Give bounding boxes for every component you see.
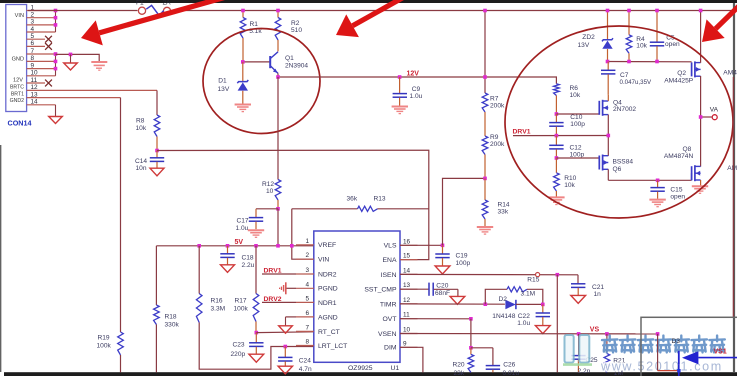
- junction VA: [699, 115, 703, 119]
- power ground R10: [548, 196, 564, 198]
- ground triangle near connector: [70, 54, 72, 63]
- svg-text:OVT: OVT: [383, 316, 397, 323]
- svg-text:C21: C21: [592, 284, 604, 291]
- svg-text:2A: 2A: [163, 0, 172, 6]
- svg-text:3.3M: 3.3M: [211, 306, 226, 313]
- capacitor C24: [284, 347, 286, 358]
- resistor R6: [554, 84, 560, 96]
- power ground C9: [392, 106, 408, 108]
- wire gate row: [608, 61, 692, 63]
- wire Q4 gate: [556, 113, 599, 115]
- svg-text:1.0u: 1.0u: [517, 320, 530, 327]
- wire R15 loop: [485, 289, 507, 304]
- wire Q2 drain: [700, 11, 702, 63]
- junction R2 top: [276, 9, 280, 13]
- zener diode D1: [242, 62, 244, 81]
- svg-text:OZ9925: OZ9925: [348, 365, 373, 372]
- svg-text:C14: C14: [135, 158, 147, 165]
- transistor Q1 2N3904: [269, 56, 271, 68]
- connector pin 9 wire: [27, 68, 56, 70]
- IC U1 body: [314, 231, 400, 362]
- svg-text:100p: 100p: [570, 151, 585, 158]
- resistor R17: [253, 294, 259, 322]
- capacitor C17: [255, 209, 257, 217]
- svg-text:Q1: Q1: [285, 55, 294, 62]
- junction C5 bottom: [655, 60, 659, 64]
- svg-text:C19: C19: [456, 252, 468, 259]
- svg-text:SST_CMP: SST_CMP: [364, 287, 397, 294]
- svg-text:16: 16: [403, 238, 411, 245]
- wire 5V to R18: [155, 246, 157, 305]
- svg-text:Q2: Q2: [677, 70, 686, 77]
- capacitor C20: [400, 288, 429, 290]
- junction 5V R16: [197, 244, 201, 248]
- port circle ISEN: [536, 273, 540, 277]
- svg-text:5: 5: [31, 33, 35, 40]
- svg-text:AGND: AGND: [318, 314, 338, 321]
- resistor R20: [470, 348, 472, 355]
- svg-text:510: 510: [291, 27, 302, 34]
- junction gnd wire: [69, 53, 73, 57]
- svg-text:C20: C20: [436, 283, 448, 290]
- svg-text:VIN: VIN: [15, 13, 24, 19]
- svg-text:C24: C24: [299, 357, 311, 364]
- svg-text:33k: 33k: [498, 209, 509, 216]
- svg-text:BRTC: BRTC: [10, 84, 24, 90]
- junction ZD2 bottom: [606, 60, 610, 64]
- svg-text:DIM: DIM: [384, 345, 397, 352]
- wire BRT1 riser: [120, 98, 122, 332]
- junction R12 bottom: [276, 207, 280, 211]
- diode D2 1N4148: [505, 300, 515, 309]
- resistor R8: [154, 115, 160, 137]
- no-connect X pin5: [45, 36, 52, 43]
- svg-text:AM4874N: AM4874N: [664, 153, 694, 160]
- wire VSEN pin10 VS net: [400, 333, 658, 335]
- svg-text:PGND: PGND: [318, 286, 338, 293]
- svg-text:1n: 1n: [594, 291, 602, 298]
- annotation ellipse right: [505, 26, 733, 218]
- box lower right: [641, 317, 737, 376]
- ground triangle C20: [450, 296, 465, 304]
- svg-text:D3: D3: [672, 338, 681, 345]
- svg-text:VA: VA: [710, 106, 719, 113]
- resistor R10: [555, 158, 557, 173]
- svg-text:ZD2: ZD2: [582, 34, 595, 41]
- connector pin 5 wire: [27, 38, 45, 40]
- svg-text:C10: C10: [570, 114, 582, 121]
- diode D3: [682, 351, 698, 364]
- svg-text:CON14: CON14: [8, 119, 32, 128]
- svg-text:7: 7: [306, 324, 310, 331]
- transistor Q2 AM4425P: [691, 62, 693, 76]
- svg-text:12: 12: [403, 297, 411, 304]
- junction R1 top: [241, 9, 245, 13]
- junction 5V R17: [254, 244, 258, 248]
- connector pin 14 wire: [27, 104, 56, 106]
- svg-text:13V: 13V: [218, 86, 230, 93]
- capacitor C15: [657, 180, 659, 187]
- svg-text:NDR2: NDR2: [318, 271, 337, 278]
- wire Q1 base: [243, 61, 270, 63]
- junction C25: [577, 332, 581, 336]
- svg-text:R17: R17: [235, 298, 247, 305]
- svg-text:F1: F1: [136, 0, 144, 6]
- junction R4 bottom: [627, 60, 631, 64]
- svg-text:10k: 10k: [136, 125, 147, 132]
- svg-text:2N3904: 2N3904: [285, 62, 308, 69]
- power ground D1: [235, 104, 251, 106]
- connector pin 12 wire: [27, 89, 157, 91]
- svg-text:DRV1: DRV1: [513, 128, 531, 135]
- junction VS box: [656, 332, 660, 336]
- connector pin 10 wire: [27, 75, 56, 77]
- svg-text:13: 13: [31, 91, 39, 98]
- wire pins 1-4 bus: [55, 11, 57, 33]
- ground triangle C23: [249, 354, 264, 362]
- svg-text:GND: GND: [12, 56, 24, 62]
- ground triangle C22: [535, 326, 550, 334]
- wire OVT riser: [470, 319, 472, 348]
- svg-text:5: 5: [306, 295, 310, 302]
- photo edge bottom bar: [4, 372, 737, 376]
- junction Q1 base: [241, 60, 245, 64]
- junction R6 bottom: [555, 112, 559, 116]
- red arrow to connector: [99, 0, 226, 33]
- junction C12 bottom: [555, 156, 559, 160]
- svg-text:R16: R16: [211, 298, 223, 305]
- resistor R4: [628, 11, 630, 35]
- junction TIMR loop left: [484, 302, 488, 306]
- annotation ellipse around Q1: [203, 29, 320, 134]
- svg-text:10: 10: [403, 327, 411, 334]
- svg-text:C23: C23: [233, 342, 245, 349]
- svg-text:4.7n: 4.7n: [299, 366, 312, 373]
- svg-text:100p: 100p: [570, 121, 585, 128]
- svg-text:TIMR: TIMR: [380, 301, 397, 308]
- svg-text:AM4: AM4: [727, 165, 737, 172]
- wire RT_CT pin7: [256, 331, 314, 334]
- svg-text:13: 13: [403, 282, 411, 289]
- svg-text:C15: C15: [670, 186, 682, 193]
- svg-text:10n: 10n: [136, 165, 147, 172]
- no-connect X pin6: [45, 43, 52, 50]
- svg-text:R18: R18: [165, 313, 177, 320]
- wire BRTC to R8: [156, 90, 158, 115]
- junction VLS C19: [441, 244, 445, 248]
- photo edge right line: [733, 3, 735, 372]
- svg-text:1.0u: 1.0u: [236, 225, 249, 232]
- wire VLS to divider: [443, 178, 486, 245]
- junction ISEN: [556, 273, 560, 277]
- svg-text:AM44: AM44: [723, 69, 737, 76]
- svg-text:14: 14: [403, 267, 411, 274]
- svg-text:12V: 12V: [407, 70, 420, 77]
- power ground C15: [649, 199, 665, 201]
- svg-text:10k: 10k: [564, 182, 575, 189]
- svg-text:4: 4: [306, 281, 310, 288]
- junction C9: [398, 75, 402, 79]
- junction DRV1 Q4: [607, 134, 611, 138]
- wire Q4 source: [607, 115, 609, 156]
- svg-text:6: 6: [31, 40, 35, 47]
- svg-text:6: 6: [306, 310, 310, 317]
- junction R7 rail: [483, 9, 487, 13]
- svg-text:0.01u: 0.01u: [503, 370, 520, 376]
- svg-text:RT_CT: RT_CT: [318, 329, 340, 336]
- svg-text:4: 4: [31, 26, 35, 33]
- wire VIN top rail left: [28, 10, 138, 12]
- resistor R2: [277, 11, 279, 18]
- junction 5V R12: [276, 244, 280, 248]
- resistor R21: [606, 334, 608, 354]
- junction Q2 drain top: [699, 9, 703, 13]
- svg-text:R20: R20: [453, 361, 465, 368]
- svg-text:www.520101.com: www.520101.com: [600, 359, 723, 373]
- svg-text:200k: 200k: [490, 103, 505, 110]
- resistor R7: [482, 93, 488, 112]
- ground triangle AGND pin6: [286, 316, 297, 318]
- svg-text:C17: C17: [237, 217, 249, 224]
- connector pin 6 wire: [27, 45, 45, 47]
- svg-text:11: 11: [403, 312, 410, 319]
- svg-text:2.2u: 2.2u: [242, 262, 255, 269]
- IC U1 left pins: [296, 244, 314, 246]
- svg-text:12: 12: [31, 84, 39, 91]
- svg-text:R10: R10: [564, 175, 576, 182]
- capacitor C5: [656, 11, 658, 42]
- svg-text:ENA: ENA: [383, 257, 397, 264]
- wire R13 left: [292, 208, 358, 210]
- wire GND net: [56, 54, 100, 61]
- wire Q4 drain: [607, 95, 609, 101]
- port VA: [701, 116, 712, 118]
- svg-text:BSS84: BSS84: [613, 159, 634, 166]
- power ground R14: [477, 226, 493, 228]
- resistor R16: [196, 294, 202, 323]
- svg-text:100k: 100k: [234, 306, 249, 313]
- svg-text:68nF: 68nF: [435, 290, 450, 297]
- capacitor C21: [577, 275, 579, 284]
- svg-text:AM4425P: AM4425P: [664, 77, 694, 84]
- wire R13 right: [378, 208, 429, 210]
- red arrow to Q1 area: [353, 0, 404, 26]
- svg-text:BRT1: BRT1: [11, 91, 24, 97]
- svg-text:open: open: [665, 41, 680, 48]
- connector pin 11 wire: [27, 82, 45, 84]
- svg-text:3.1M: 3.1M: [521, 291, 536, 298]
- junction pins7-10: [54, 52, 58, 56]
- svg-text:LRT_LCT: LRT_LCT: [318, 343, 347, 350]
- svg-text:200k: 200k: [490, 141, 505, 148]
- junction R20: [469, 346, 473, 350]
- capacitor C23: [255, 333, 257, 343]
- svg-text:8: 8: [31, 55, 35, 62]
- svg-text:VIN: VIN: [318, 257, 329, 264]
- svg-text:VLS: VLS: [384, 243, 397, 250]
- ground triangle C19: [435, 266, 450, 274]
- connector pin 4 wire: [27, 31, 56, 33]
- resistor R12: [275, 180, 281, 201]
- zener diode ZD2: [607, 11, 609, 40]
- svg-text:C18: C18: [242, 254, 254, 261]
- photo edge left line: [0, 145, 2, 372]
- svg-text:1: 1: [306, 238, 310, 245]
- capacitor C22: [542, 304, 544, 312]
- wire Q6 drain down: [607, 169, 609, 180]
- svg-text:15: 15: [403, 253, 411, 260]
- ground triangle pin14: [55, 105, 57, 117]
- capacitor C26: [471, 347, 493, 349]
- junction 5V VIN: [290, 244, 294, 248]
- resistor R19: [118, 332, 124, 355]
- svg-text:R8: R8: [136, 117, 145, 124]
- wire ISEN sense riser: [556, 275, 558, 373]
- svg-text:open: open: [670, 193, 685, 200]
- svg-text:R15: R15: [527, 277, 539, 284]
- svg-text:3: 3: [31, 19, 35, 26]
- wire VIN top rail right: [171, 10, 734, 12]
- svg-text:2N7002: 2N7002: [613, 106, 636, 113]
- ground triangle C18: [221, 265, 235, 273]
- wire R12 to C17: [256, 208, 278, 210]
- svg-text:100k: 100k: [97, 342, 112, 349]
- svg-text:13V: 13V: [578, 42, 590, 49]
- svg-text:2.2n: 2.2n: [578, 368, 591, 375]
- wire VLS pin16: [400, 244, 443, 246]
- svg-text:C26: C26: [503, 361, 515, 368]
- svg-text:R14: R14: [498, 201, 510, 208]
- svg-text:10: 10: [31, 70, 39, 77]
- svg-text:C22: C22: [518, 313, 530, 320]
- wire OVT pin11: [400, 318, 471, 320]
- resistor R18: [154, 305, 160, 325]
- svg-text:VS: VS: [590, 327, 600, 334]
- capacitor C10: [555, 114, 557, 122]
- transistor Q4 2N7002: [598, 101, 600, 115]
- watermark characters: [602, 336, 617, 353]
- wire R7 top: [484, 11, 486, 94]
- svg-text:1.0u: 1.0u: [410, 93, 423, 100]
- svg-text:11: 11: [31, 77, 38, 84]
- junction C24: [284, 345, 288, 349]
- connector pin 8 wire: [27, 60, 56, 62]
- junction OVT corner: [469, 317, 473, 321]
- svg-text:23k: 23k: [454, 370, 465, 376]
- wire Q2 source to Q8: [700, 76, 702, 167]
- svg-text:3: 3: [306, 267, 310, 274]
- wire DIM pin9: [400, 347, 423, 372]
- wire 5V to R17: [255, 246, 257, 294]
- wire edge right circuit: [732, 77, 734, 317]
- resistor R15: [507, 287, 527, 292]
- wire pins 7-10 bus: [55, 54, 57, 76]
- ground triangle C21: [571, 295, 586, 303]
- junction C5 top: [655, 9, 659, 13]
- fuse F1: [138, 7, 145, 14]
- svg-text:R9: R9: [490, 134, 499, 141]
- wire R16 to pin8: [199, 323, 314, 370]
- connector pin 7 wire: [27, 53, 56, 55]
- svg-text:5V: 5V: [235, 239, 244, 246]
- svg-text:VSEN: VSEN: [378, 331, 397, 338]
- svg-text:10k: 10k: [636, 43, 647, 50]
- resistor R13: [358, 206, 378, 211]
- svg-text:GND2: GND2: [10, 98, 25, 104]
- red arrow to Q2 area: [716, 4, 737, 29]
- svg-text:0.047u,35V: 0.047u,35V: [620, 79, 653, 86]
- junction DRV1 C10: [555, 134, 559, 138]
- svg-text:D1: D1: [218, 78, 227, 85]
- power ground PGND pin4: [286, 287, 296, 289]
- svg-text:10k: 10k: [570, 92, 581, 99]
- connector pin 2 wire: [27, 17, 56, 19]
- svg-text:8: 8: [306, 339, 310, 346]
- svg-text:D2: D2: [499, 296, 508, 303]
- junction pins1-2: [54, 9, 58, 13]
- svg-text:U1: U1: [391, 365, 400, 372]
- capacitor C19: [442, 245, 444, 253]
- capacitor C18: [227, 246, 229, 254]
- junction R9 bottom: [483, 177, 487, 181]
- svg-text:14: 14: [31, 99, 39, 106]
- wire ISEN pin14: [400, 273, 578, 275]
- svg-text:12V: 12V: [13, 78, 23, 84]
- svg-text:2: 2: [306, 252, 310, 259]
- wire 5V rail: [156, 245, 313, 247]
- capacitor C7: [607, 62, 609, 70]
- wire Q6 gate: [556, 157, 599, 159]
- svg-text:220p: 220p: [231, 351, 246, 358]
- svg-text:2: 2: [31, 12, 35, 19]
- capacitor C9: [399, 77, 401, 93]
- capacitor C12: [555, 136, 557, 145]
- svg-text:VREF: VREF: [318, 242, 336, 249]
- ground triangle C24: [278, 366, 292, 374]
- svg-text:100p: 100p: [456, 260, 471, 267]
- transistor Q6 BSS84: [598, 156, 600, 170]
- resistor R9: [482, 136, 488, 155]
- svg-text:36k: 36k: [347, 195, 358, 202]
- wire gate bottom row: [608, 179, 691, 181]
- no-connect X pin11: [45, 80, 52, 87]
- svg-text:9: 9: [31, 62, 35, 69]
- junction ZD2 top: [606, 9, 610, 13]
- svg-text:ISEN: ISEN: [381, 272, 397, 279]
- wire TIMR pin12: [400, 303, 505, 305]
- wire ENA long: [157, 150, 429, 259]
- junction C18: [226, 244, 230, 248]
- svg-text:R12: R12: [262, 181, 274, 188]
- svg-text:NDR1: NDR1: [318, 300, 337, 307]
- svg-text:330k: 330k: [165, 321, 180, 328]
- svg-text:9: 9: [403, 340, 407, 347]
- junction C22: [541, 303, 545, 307]
- svg-text:7: 7: [31, 48, 35, 55]
- junction Q1 emitter: [276, 75, 280, 79]
- transistor Q8 AM4874N: [691, 166, 693, 180]
- svg-text:R19: R19: [98, 334, 110, 341]
- junction R17 C23: [255, 331, 259, 335]
- resistor R1: [242, 11, 244, 18]
- wire VIN pin2 riser: [292, 209, 314, 259]
- earth ground near connector: [91, 61, 107, 63]
- capacitor C14: [156, 151, 158, 158]
- wire Q1 emitter to R12: [277, 77, 279, 180]
- wire DRV1 net: [513, 135, 608, 137]
- power ground C17: [248, 229, 264, 231]
- IC U1 right pins: [400, 244, 418, 246]
